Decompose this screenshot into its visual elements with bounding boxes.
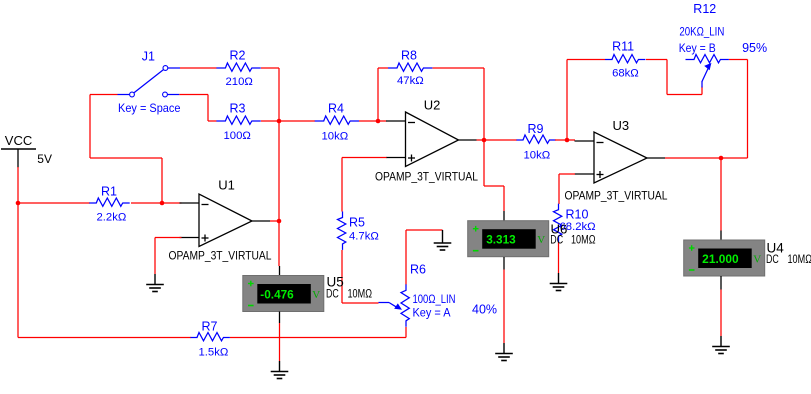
ground U1 plus	[154, 274, 156, 285]
svg-text:Key = A: Key = A	[413, 308, 451, 320]
wire U1 output to node	[270, 220, 279, 222]
wire U2 output node to R9	[484, 139, 517, 141]
svg-text:10kΩ: 10kΩ	[322, 131, 349, 143]
svg-text:Key = B: Key = B	[679, 43, 716, 55]
svg-text:DC: DC	[550, 234, 563, 246]
wire U3 output	[665, 157, 721, 159]
svg-text:U5: U5	[327, 275, 344, 290]
wire U2 output node down to U6 voltmeter	[483, 140, 485, 186]
wire R2 to right vertical	[261, 67, 279, 69]
op-amp U1	[199, 194, 252, 247]
svg-text:40%: 40%	[472, 303, 497, 317]
svg-text:68kΩ: 68kΩ	[612, 68, 639, 80]
wire U2 plus input to R5	[342, 157, 387, 159]
svg-text:U2: U2	[424, 98, 441, 113]
node U1 output junction	[277, 219, 282, 224]
op-amp U3	[594, 132, 647, 183]
svg-text:OPAMP_3T_VIRTUAL: OPAMP_3T_VIRTUAL	[565, 191, 669, 203]
resistor R1	[89, 202, 97, 204]
wire J1 throw1 to R2	[180, 67, 217, 69]
power VCC	[1, 148, 36, 150]
resistor R9	[517, 139, 524, 141]
wire U5 bottom to ground	[279, 312, 281, 324]
wire left vertical down to R7 line	[17, 203, 19, 338]
svg-text:100Ω: 100Ω	[224, 130, 251, 142]
node U3 inverting junction	[565, 138, 570, 143]
svg-text:J1: J1	[142, 50, 155, 64]
svg-text:U1: U1	[218, 178, 235, 193]
svg-text:3.313: 3.313	[486, 233, 516, 247]
svg-text:10kΩ: 10kΩ	[524, 150, 551, 162]
svg-text:210Ω: 210Ω	[226, 76, 253, 88]
wire R11 to R12 wiper	[646, 59, 667, 61]
svg-text:5V: 5V	[37, 152, 52, 166]
wire junction to R4	[261, 120, 279, 122]
svg-text:R1: R1	[101, 185, 117, 199]
wire U4 bottom to ground	[720, 276, 722, 290]
wire U3 output node down to U4	[720, 158, 722, 231]
voltmeter U5	[243, 276, 324, 312]
voltmeter U4	[684, 240, 765, 276]
node U2 output junction	[482, 138, 487, 143]
wire U2 output to node	[477, 139, 485, 141]
wire R7 to R6 bottom	[230, 337, 406, 339]
wire junction to U2 minus pin	[378, 120, 387, 122]
svg-text:R3: R3	[230, 102, 246, 116]
wire right vertical R2-R3-U1out	[278, 68, 280, 221]
voltmeter U6	[468, 221, 549, 257]
wire U3 output node to feedback column	[721, 157, 748, 159]
svg-text:V: V	[537, 234, 545, 246]
svg-text:R10: R10	[566, 208, 589, 222]
svg-text:R4: R4	[328, 102, 344, 116]
svg-text:OPAMP_3T_VIRTUAL: OPAMP_3T_VIRTUAL	[375, 172, 479, 184]
resistor R8	[388, 67, 398, 69]
wire U1 plus input	[155, 237, 182, 239]
wire node to R1	[18, 202, 90, 204]
wire R1 to U1 inverting node	[131, 202, 162, 204]
svg-text:R2: R2	[230, 49, 246, 63]
wire feedback junction up to R11	[566, 60, 568, 141]
resistor R10	[558, 204, 560, 211]
wire R6 top to ground branch	[405, 230, 407, 285]
wire R5 bottom to R6 wiper	[341, 250, 343, 303]
wire J1 pole from left net	[90, 94, 118, 96]
ground U6	[503, 343, 505, 354]
potentiometer R12	[686, 59, 695, 61]
wire junction to U1 minus pin	[162, 202, 182, 204]
node U1 inverting junction	[160, 201, 165, 206]
wire U6 top pin	[503, 211, 505, 221]
svg-text:DC: DC	[326, 289, 339, 301]
svg-text:R8: R8	[401, 49, 417, 63]
svg-text:4.7kΩ: 4.7kΩ	[349, 231, 379, 243]
wire R8 to U2 output node	[433, 67, 485, 69]
resistor R4	[315, 120, 325, 122]
svg-text:10MΩ: 10MΩ	[348, 289, 373, 301]
svg-text:10MΩ: 10MΩ	[788, 254, 811, 266]
svg-text:OPAMP_3T_VIRTUAL: OPAMP_3T_VIRTUAL	[169, 251, 273, 263]
ground R6 top	[442, 230, 444, 244]
svg-text:VCC: VCC	[5, 133, 32, 148]
wire R7 line left segment	[18, 337, 191, 339]
svg-text:20KΩ_LIN: 20KΩ_LIN	[679, 27, 724, 39]
svg-text:47kΩ: 47kΩ	[397, 75, 424, 87]
ground U4	[720, 336, 722, 347]
svg-text:R11: R11	[612, 40, 634, 54]
resistor R2	[216, 67, 226, 69]
switch J1	[118, 94, 130, 96]
wire U3 plus input to R10	[559, 173, 575, 175]
svg-text:100Ω_LIN: 100Ω_LIN	[413, 294, 456, 306]
svg-text:Key = Space: Key = Space	[118, 101, 181, 115]
svg-text:U3: U3	[613, 118, 630, 133]
svg-text:10MΩ: 10MΩ	[571, 234, 596, 246]
node R2/R3 junction	[277, 119, 282, 124]
wire U4 top pin	[720, 231, 722, 241]
resistor R3	[216, 120, 226, 122]
svg-text:V: V	[753, 254, 761, 266]
wire U5 top pin	[279, 266, 281, 276]
node U2 inverting junction	[376, 119, 381, 124]
resistor R5	[342, 212, 344, 219]
svg-text:-0.476: -0.476	[260, 288, 294, 302]
wire junction to U3 minus pin	[567, 139, 575, 141]
wire U6 bottom to ground	[503, 257, 505, 270]
svg-text:V: V	[312, 289, 320, 301]
node VCC-R1-R7 junction	[16, 201, 21, 206]
ground U5	[279, 361, 281, 372]
node U3 output junction	[719, 156, 724, 161]
wire R4 to junction	[359, 120, 378, 122]
svg-text:R12: R12	[693, 2, 716, 16]
resistor R11	[605, 59, 613, 61]
ground R10	[558, 273, 560, 284]
wire R6 bottom to R7 line	[405, 327, 407, 338]
resistor R7	[191, 337, 198, 339]
svg-text:1.5kΩ: 1.5kΩ	[199, 347, 229, 359]
wire VCC to node	[17, 167, 19, 203]
wire R9 to junction	[555, 139, 567, 141]
wire junction up to R8	[377, 68, 379, 121]
wire R10 to ground	[558, 242, 560, 273]
svg-text:2.2kΩ: 2.2kΩ	[97, 212, 127, 224]
svg-text:R9: R9	[528, 122, 544, 136]
svg-text:DC: DC	[766, 254, 779, 266]
op-amp U2	[406, 112, 459, 167]
svg-text:21.000: 21.000	[702, 252, 739, 266]
wire U1 output node down to U5	[278, 221, 280, 266]
wire J1 throw2 to R3	[179, 94, 208, 96]
svg-text:R6: R6	[410, 263, 426, 277]
svg-text:95%: 95%	[742, 41, 767, 55]
svg-text:R5: R5	[349, 216, 365, 230]
svg-text:R7: R7	[202, 320, 218, 334]
wire R12 to U3 output column	[729, 59, 748, 61]
potentiometer R6	[405, 284, 407, 291]
